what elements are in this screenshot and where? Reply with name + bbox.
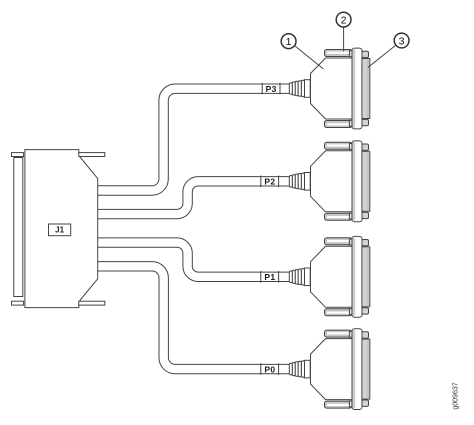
svg-text:P3: P3 [266, 84, 277, 94]
svg-text:2: 2 [341, 14, 347, 26]
svg-text:P0: P0 [264, 365, 275, 375]
svg-text:1: 1 [286, 36, 292, 48]
svg-text:J1: J1 [55, 226, 64, 235]
svg-text:g009637: g009637 [453, 382, 460, 409]
svg-text:P1: P1 [264, 272, 275, 282]
svg-text:P2: P2 [264, 177, 275, 187]
svg-text:3: 3 [399, 35, 405, 47]
